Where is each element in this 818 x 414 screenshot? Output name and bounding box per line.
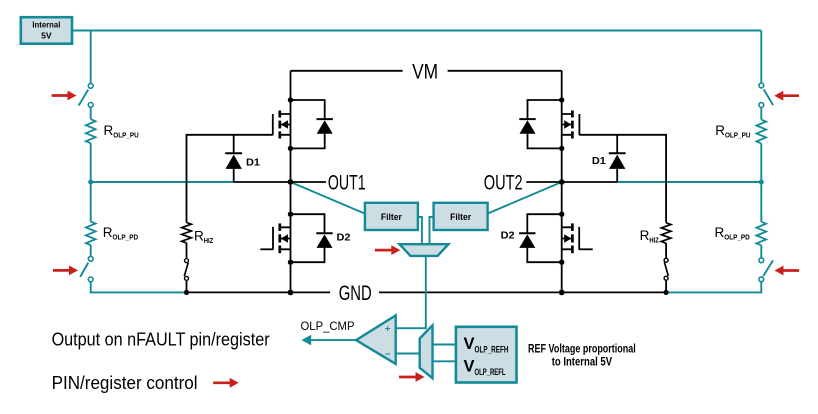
block: OLP reference voltages xyxy=(456,327,517,383)
wire: mux output to comparator + input xyxy=(396,256,426,328)
switch SW1 (left pull-up) xyxy=(88,83,93,88)
wire: SW3 to R_OLP_PU right xyxy=(760,107,762,119)
wire: R_HIZ to SW5 xyxy=(186,243,188,259)
wire: OUT2 node to D1 right xyxy=(562,181,618,183)
Internal 5V box xyxy=(21,17,72,44)
arrow: SW3 control xyxy=(782,94,799,97)
wire: right R_HIZ to SW6 xyxy=(665,243,667,258)
wire: R_OLP_PU right to OUT2 xyxy=(760,143,762,182)
node: Q1 source junction xyxy=(288,146,293,151)
resistor R_OLP_PD (right) xyxy=(757,222,767,246)
resistor R_HIZ (right) xyxy=(661,223,671,243)
wire: D1 to OUT1 node xyxy=(234,181,291,183)
wire: SW5 to GND xyxy=(186,280,188,292)
arrow: legend control arrow xyxy=(213,381,231,384)
wire: internal 5V top rail xyxy=(72,30,761,32)
node: Q4 source junction xyxy=(559,260,564,265)
switch SW3 (right pull-up) xyxy=(759,83,764,88)
wire: OUT1 to Filter1 input xyxy=(291,182,365,214)
svg-text:RHIZ: RHIZ xyxy=(640,228,660,245)
wire: SW4 to GND xyxy=(666,282,761,293)
wire: Q3 gate line to right R_HIZ branch xyxy=(579,135,666,223)
svg-text:ROLP_PU: ROLP_PU xyxy=(104,123,139,140)
wire: right column OUT2 to R_OLP_PD xyxy=(760,182,762,222)
diode D1 (right) xyxy=(616,135,618,154)
node: right HIZ GND junction xyxy=(664,290,669,295)
wire: SW2 to GND xyxy=(91,282,187,293)
wire: Q2 gate stub xyxy=(260,248,273,250)
transistor Q1 (left high-side FET) xyxy=(280,114,291,135)
svg-text:PIN/register control: PIN/register control xyxy=(52,373,198,393)
svg-text:Filter: Filter xyxy=(450,212,472,222)
wire: right half-bridge vertical xyxy=(561,71,563,293)
svg-text:ROLP_PD: ROLP_PD xyxy=(715,225,750,242)
node: right leg GND junction xyxy=(559,290,565,296)
svg-text:−: − xyxy=(385,349,391,360)
wire: OLP_CMP output with arrow xyxy=(310,339,357,341)
svg-text:REF Voltage proportional: REF Voltage proportional xyxy=(528,341,636,355)
svg-text:+: + xyxy=(385,323,391,334)
switch SW5 (left HIZ) xyxy=(185,259,189,263)
wire: OUT2 teal segment xyxy=(617,181,761,183)
wire: SW1 to R_OLP_PU xyxy=(90,107,92,119)
node: left VM drain junction xyxy=(288,97,293,102)
svg-text:Output on nFAULT pin/register: Output on nFAULT pin/register xyxy=(52,329,270,349)
wire: OUT2 to Filter2 input xyxy=(488,182,562,214)
wire: Q4 gate stub xyxy=(579,248,593,250)
mux U1 (filter select) xyxy=(400,244,449,256)
node: Q2 drain junction xyxy=(288,212,293,217)
wire: left half-bridge vertical xyxy=(290,71,292,293)
wire: comparator - input to mux2 xyxy=(396,353,420,355)
wire: Q1 gate line to R_HIZ branch xyxy=(187,135,273,223)
wire: VOLP_REFL to mux2 xyxy=(433,360,456,362)
wire: right pull-up column xyxy=(760,31,762,83)
node: OUT1 junction xyxy=(288,179,294,185)
svg-text:GND: GND xyxy=(339,282,372,305)
svg-text:D2: D2 xyxy=(501,229,515,241)
wire: GND rail xyxy=(187,291,667,293)
svg-text:Filter: Filter xyxy=(381,212,403,222)
switch SW6 (right HIZ) xyxy=(664,258,668,262)
node: left HIZ GND junction xyxy=(184,290,189,295)
wire: OUT1 teal segment xyxy=(91,181,234,183)
block: Filter 1 xyxy=(365,203,418,230)
svg-text:ROLP_PD: ROLP_PD xyxy=(103,225,138,242)
svg-text:OLP_CMP: OLP_CMP xyxy=(301,321,355,333)
block: Filter 2 xyxy=(434,203,488,230)
wire: left pull-up column xyxy=(90,31,92,84)
svg-text:OUT2: OUT2 xyxy=(484,172,523,195)
wire: Filter2 output to mux xyxy=(430,217,434,244)
resistor R_HIZ (left) xyxy=(182,223,192,243)
wire: VOLP_REFH to mux2 xyxy=(433,344,456,346)
node: right VM drain junction xyxy=(559,97,564,102)
wire: SW6 to GND xyxy=(665,280,667,292)
resistor R_OLP_PU (left) xyxy=(86,119,96,143)
transistor Q4 (right low-side FET) xyxy=(562,227,573,249)
diode D2 (right, Q4 body diode) xyxy=(527,214,561,233)
mux U3 (reference select) xyxy=(420,325,433,378)
svg-text:OUT1: OUT1 xyxy=(328,172,366,195)
transistor Q3 (right high-side FET) xyxy=(562,114,573,135)
wire: left column OUT1 to R_OLP_PD xyxy=(90,182,92,222)
node: Q4 drain junction xyxy=(559,212,564,217)
wire: VM rail xyxy=(291,70,562,72)
arrow: SW2 control xyxy=(53,269,71,272)
node: Q3 source junction xyxy=(559,146,564,151)
wire: R_OLP_PD right to SW4 xyxy=(760,245,762,258)
wire: Filter1 output to mux xyxy=(418,217,422,244)
svg-text:D2: D2 xyxy=(337,232,351,244)
svg-text:D1: D1 xyxy=(246,156,260,168)
svg-text:RHIZ: RHIZ xyxy=(194,228,214,245)
diode D2 (left, Q2 body diode) xyxy=(291,214,325,233)
svg-text:to Internal 5V: to Internal 5V xyxy=(552,354,612,368)
svg-text:D1: D1 xyxy=(592,155,606,167)
svg-text:5V: 5V xyxy=(41,31,52,41)
arrow: SW4 control xyxy=(782,269,799,272)
node: OUT1 left column junction xyxy=(88,180,93,185)
switch SW2 (left pull-down) xyxy=(88,256,93,261)
op-amp U2 (OLP comparator) xyxy=(356,315,396,364)
svg-text:ROLP_PU: ROLP_PU xyxy=(715,123,750,140)
wire: OUT1 label stub xyxy=(291,181,327,183)
node: Q2 source junction xyxy=(288,260,293,265)
wire: R_OLP_PD to SW2 xyxy=(90,245,92,256)
arrow: SW1 control xyxy=(52,94,69,97)
switch SW4 (right pull-down) xyxy=(759,258,764,263)
node: left leg GND junction xyxy=(288,290,294,296)
transistor Q2 (left low-side FET) xyxy=(280,227,291,249)
arrow: mux U1 control xyxy=(375,249,393,252)
diode: Q1 body diode xyxy=(291,100,325,119)
wire: R_OLP_PU to OUT1 xyxy=(90,143,92,182)
diode: Q3 body diode xyxy=(528,100,562,119)
node: OUT2 junction xyxy=(559,179,565,185)
resistor R_OLP_PD (left) xyxy=(86,222,96,246)
diode D1 (left) xyxy=(233,135,235,154)
svg-text:VM: VM xyxy=(412,60,438,83)
wire: OUT2 label stub xyxy=(526,181,561,183)
arrow: mux U3 control xyxy=(399,376,417,379)
svg-text:Internal: Internal xyxy=(32,19,60,29)
node: OUT2 right column junction xyxy=(759,180,764,185)
resistor R_OLP_PU (right) xyxy=(757,120,767,144)
